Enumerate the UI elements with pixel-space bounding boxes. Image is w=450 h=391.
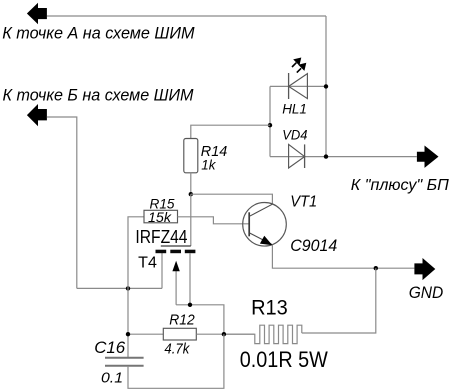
svg-text:GND: GND [409,284,444,302]
wire: MOSFET source lead (bar1 down then left) [161,253,163,289]
svg-text:VT1: VT1 [290,193,317,210]
LED HL1 triangle [289,74,308,99]
svg-text:R12: R12 [169,313,194,329]
svg-text:0.1: 0.1 [101,370,123,386]
wire: drain lead down from bar3 [189,253,191,305]
MOSFET T4 body contact bar [170,250,181,254]
resistor R13 meander [224,325,302,343]
wire: C16 bottom to bottom rail [128,334,224,388]
svg-text:C9014: C9014 [290,237,337,255]
svg-text:К "плюсу" БП: К "плюсу" БП [351,177,449,194]
arrow to point B [27,104,47,126]
wire: R14 top lead [191,125,270,138]
wire: GND drop to R13 right [302,268,376,333]
LED HL1 cathode bar [288,73,290,99]
wire: collector net [191,194,273,204]
MOSFET T4 drain contact bar [185,250,196,254]
svg-text:4.7k: 4.7k [164,341,190,357]
VT1 emitter arrowhead [260,236,273,246]
diode VD4 wire [270,156,417,158]
MOSFET T4 source contact bar [156,250,167,254]
wire: left rail (R15 left to C16 top) [128,217,144,357]
node: drain/body junction [188,303,192,307]
left rail of LED/diode block [269,86,271,156]
wire: R12 left lead from rail [128,333,163,335]
svg-text:1k: 1k [201,156,216,172]
arrow to plus of PSU [417,146,439,168]
arrow to point A [27,3,47,24]
wire: from point B arrow to left drop [47,117,77,288]
wire: body/drain bottom horizontal then down to R12 right [176,305,224,334]
svg-text:R13: R13 [251,296,288,320]
node: VD4 right junction [324,154,328,158]
svg-text:К точке Б на схеме ШИМ: К точке Б на схеме ШИМ [3,86,194,104]
VT1 emitter diagonal [250,233,273,245]
wire: R14 bottom lead [190,173,192,194]
wire: R15 right to VT1 base [178,217,250,224]
node: GND junction [374,266,378,270]
LED HL1 wire [270,85,326,87]
diode VD4 triangle [289,144,305,168]
resistor R14 body [184,139,198,173]
svg-text:15k: 15k [148,209,172,225]
LED HL1 light arrow 2 [297,63,307,73]
resistor R12 body [163,328,196,340]
LED HL1 light arrow 1 [292,58,301,68]
node: HL1 right junction [324,84,328,88]
VT1 collector diagonal [250,204,273,216]
VT1 base bar [248,212,250,236]
diode VD4 cathode bar [304,144,306,168]
wire: source net horizontal at bottom of MOSFET [77,287,162,289]
capacitor C16 bottom plate [105,365,144,367]
svg-text:IRFZ44: IRFZ44 [135,227,187,247]
svg-text:0.01R 5W: 0.01R 5W [240,347,328,372]
wire: emitter down then right to GND [272,245,414,268]
wire: top net to point A [47,15,326,17]
capacitor C16 top plate [105,357,144,359]
wire: gate feed [190,194,192,246]
wire: R12 right lead [196,333,254,335]
node: R14 top to LED rail [268,123,272,127]
node: R12 left junction [126,332,130,336]
svg-text:VD4: VD4 [282,127,307,143]
node: source junction on left rail [126,286,130,290]
transistor VT1 circle [243,203,287,247]
node: R12 right junction [222,332,226,336]
MOSFET body arrow (up) [172,261,179,305]
wire: right vertical rail from top to VD4 level [325,16,327,157]
svg-text:C16: C16 [94,338,126,357]
node: R14 bottom junction [189,192,193,196]
MOSFET T4 gate bar [161,245,191,247]
svg-text:T4: T4 [138,255,157,272]
resistor R15 body [144,210,178,223]
svg-text:HL1: HL1 [282,101,307,117]
arrow GND [414,258,435,280]
svg-text:К точке А на схеме ШИМ: К точке А на схеме ШИМ [2,25,195,43]
